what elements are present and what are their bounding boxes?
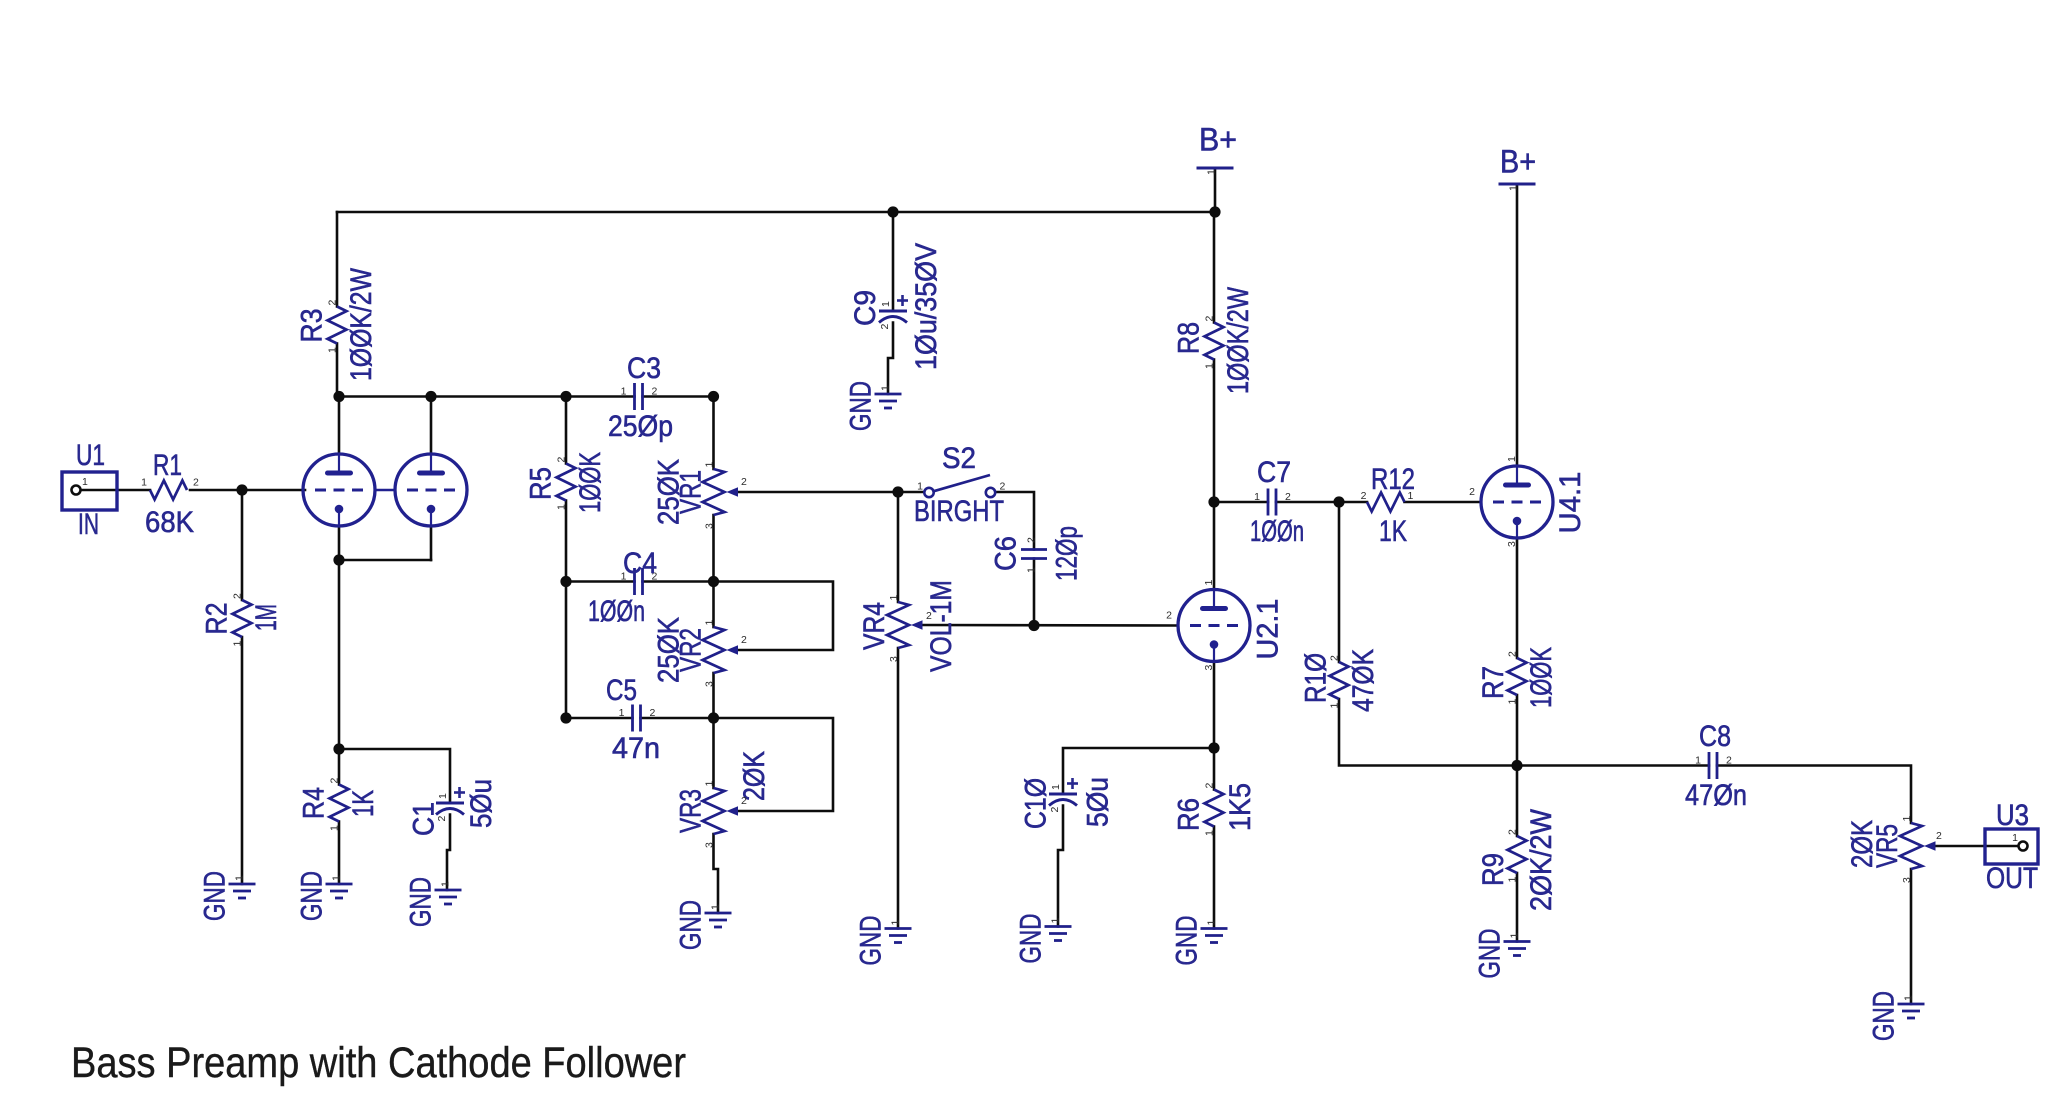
svg-text:2: 2 — [741, 634, 747, 646]
svg-text:2: 2 — [926, 610, 932, 622]
svg-text:3: 3 — [704, 842, 716, 848]
svg-text:VR5: VR5 — [1871, 824, 1904, 868]
svg-text:B+: B+ — [1199, 122, 1237, 158]
svg-text:1ØØn: 1ØØn — [588, 595, 645, 628]
svg-text:2: 2 — [650, 707, 656, 719]
svg-text:1: 1 — [704, 620, 716, 626]
svg-text:C9: C9 — [849, 290, 882, 326]
svg-text:1: 1 — [1026, 567, 1038, 573]
svg-text:1ØØK: 1ØØK — [1525, 647, 1558, 708]
svg-text:1ØØK/2W: 1ØØK/2W — [345, 267, 378, 381]
svg-text:3: 3 — [704, 523, 716, 529]
svg-text:5Øu: 5Øu — [465, 779, 498, 828]
svg-text:47Øn: 47Øn — [1685, 779, 1747, 812]
svg-text:1: 1 — [437, 793, 449, 799]
svg-text:1Øu/35ØV: 1Øu/35ØV — [910, 243, 943, 370]
svg-text:1: 1 — [440, 881, 452, 887]
svg-text:1: 1 — [1206, 920, 1218, 926]
svg-text:1: 1 — [1204, 363, 1216, 369]
svg-text:1M: 1M — [250, 604, 283, 631]
svg-text:VR2: VR2 — [675, 628, 708, 672]
svg-text:S2: S2 — [942, 442, 976, 475]
svg-text:VR4: VR4 — [858, 602, 891, 650]
svg-text:1: 1 — [710, 904, 722, 910]
svg-text:GND: GND — [1171, 916, 1204, 966]
svg-text:R8: R8 — [1173, 322, 1206, 354]
svg-text:2: 2 — [741, 795, 747, 807]
svg-text:2: 2 — [1000, 481, 1006, 493]
svg-text:1: 1 — [1509, 933, 1521, 939]
svg-text:2: 2 — [1507, 829, 1519, 835]
svg-text:B+: B+ — [1500, 144, 1536, 180]
svg-text:1ØØn: 1ØØn — [1250, 515, 1304, 548]
svg-text:2: 2 — [1507, 651, 1519, 657]
svg-text:1K: 1K — [347, 790, 380, 817]
svg-text:R7: R7 — [1477, 666, 1510, 699]
svg-text:C8: C8 — [1699, 720, 1731, 753]
svg-text:2: 2 — [1469, 486, 1475, 498]
svg-text:OUT: OUT — [1986, 862, 2038, 895]
svg-text:GND: GND — [199, 871, 232, 921]
svg-text:1: 1 — [1901, 816, 1913, 822]
svg-text:1: 1 — [704, 462, 716, 468]
svg-text:1: 1 — [1408, 490, 1414, 502]
svg-text:Bass Preamp with Cathode Follo: Bass Preamp with Cathode Follower — [71, 1039, 686, 1087]
svg-text:C4: C4 — [623, 547, 657, 580]
svg-text:47n: 47n — [612, 732, 660, 765]
svg-text:R9: R9 — [1477, 853, 1510, 886]
svg-text:GND: GND — [1015, 914, 1048, 964]
svg-text:1: 1 — [1254, 491, 1260, 503]
svg-text:R4: R4 — [298, 787, 331, 819]
svg-text:C1Ø: C1Ø — [1020, 778, 1053, 829]
svg-text:GND: GND — [405, 877, 438, 927]
svg-text:3: 3 — [1203, 665, 1215, 671]
svg-text:1: 1 — [1506, 456, 1518, 462]
svg-text:IN: IN — [78, 508, 99, 541]
svg-text:2: 2 — [327, 300, 339, 306]
svg-text:2ØK: 2ØK — [738, 751, 771, 801]
svg-text:GND: GND — [845, 381, 878, 431]
svg-text:3: 3 — [1506, 541, 1518, 547]
svg-text:R1Ø: R1Ø — [1300, 653, 1333, 703]
svg-text:3: 3 — [704, 681, 716, 687]
svg-text:1: 1 — [880, 385, 892, 391]
svg-text:2: 2 — [193, 477, 199, 489]
svg-text:2: 2 — [1204, 316, 1216, 322]
svg-text:3: 3 — [1901, 877, 1913, 883]
svg-text:R5: R5 — [525, 467, 558, 500]
svg-text:GND: GND — [1474, 929, 1507, 979]
svg-text:1: 1 — [331, 875, 343, 881]
svg-text:1: 1 — [890, 920, 902, 926]
svg-text:R6: R6 — [1173, 798, 1206, 831]
svg-text:VR1: VR1 — [675, 470, 708, 514]
svg-text:2: 2 — [1285, 491, 1291, 503]
svg-text:1: 1 — [141, 477, 147, 489]
svg-text:1: 1 — [234, 875, 246, 881]
svg-text:GND: GND — [855, 916, 888, 966]
svg-text:GND: GND — [1868, 991, 1901, 1041]
svg-text:1: 1 — [1050, 918, 1062, 924]
svg-text:R3: R3 — [296, 309, 329, 343]
svg-text:3: 3 — [888, 656, 900, 662]
svg-text:2ØK/2W: 2ØK/2W — [1525, 808, 1558, 911]
svg-text:1: 1 — [888, 595, 900, 601]
svg-text:U4.1: U4.1 — [1554, 472, 1587, 534]
svg-text:1: 1 — [704, 781, 716, 787]
svg-text:1K5: 1K5 — [1224, 783, 1257, 831]
svg-text:U1: U1 — [76, 439, 105, 472]
svg-text:U3: U3 — [1996, 799, 2029, 832]
svg-text:1: 1 — [1206, 169, 1218, 175]
svg-text:C6: C6 — [990, 536, 1023, 571]
svg-text:BIRGHT: BIRGHT — [914, 495, 1004, 528]
svg-text:1: 1 — [917, 481, 923, 493]
svg-text:VR3: VR3 — [675, 789, 708, 833]
svg-text:2: 2 — [1026, 537, 1038, 543]
svg-text:1: 1 — [232, 641, 244, 647]
svg-text:1ØØK/2W: 1ØØK/2W — [1222, 286, 1255, 394]
svg-text:68K: 68K — [145, 506, 194, 539]
svg-text:2: 2 — [1936, 830, 1942, 842]
svg-text:12Øp: 12Øp — [1051, 526, 1084, 581]
svg-text:25Øp: 25Øp — [608, 410, 673, 443]
svg-text:C5: C5 — [606, 674, 637, 707]
svg-text:1: 1 — [1903, 995, 1915, 1001]
svg-text:1: 1 — [329, 825, 341, 831]
svg-text:U2.1: U2.1 — [1252, 599, 1285, 660]
svg-text:1: 1 — [619, 707, 625, 719]
svg-text:47ØK: 47ØK — [1347, 649, 1380, 712]
svg-text:GND: GND — [675, 900, 708, 950]
svg-text:1: 1 — [82, 476, 88, 488]
svg-text:2: 2 — [652, 386, 658, 398]
svg-text:1: 1 — [1695, 755, 1701, 767]
svg-text:5Øu: 5Øu — [1082, 777, 1115, 827]
svg-text:1: 1 — [2012, 832, 2018, 844]
svg-text:2: 2 — [556, 457, 568, 463]
svg-text:C3: C3 — [627, 352, 661, 385]
svg-text:2: 2 — [1204, 783, 1216, 789]
svg-text:1: 1 — [327, 347, 339, 353]
svg-text:GND: GND — [296, 871, 329, 921]
svg-text:2: 2 — [232, 593, 244, 599]
svg-text:1K: 1K — [1379, 515, 1407, 548]
svg-text:R1: R1 — [153, 449, 182, 482]
svg-text:2: 2 — [741, 476, 747, 488]
svg-text:2: 2 — [1166, 610, 1172, 622]
svg-text:1: 1 — [1203, 580, 1215, 586]
svg-text:2: 2 — [1361, 490, 1367, 502]
svg-text:VOL-1M: VOL-1M — [925, 580, 958, 672]
svg-text:1: 1 — [556, 504, 568, 510]
svg-text:2: 2 — [1726, 755, 1732, 767]
svg-text:C7: C7 — [1257, 456, 1291, 489]
svg-text:R2: R2 — [201, 603, 234, 635]
svg-text:1: 1 — [621, 386, 627, 398]
svg-text:C1: C1 — [408, 802, 441, 836]
svg-text:2: 2 — [329, 778, 341, 784]
svg-text:1: 1 — [1508, 185, 1520, 191]
svg-text:1ØØK: 1ØØK — [574, 452, 607, 513]
